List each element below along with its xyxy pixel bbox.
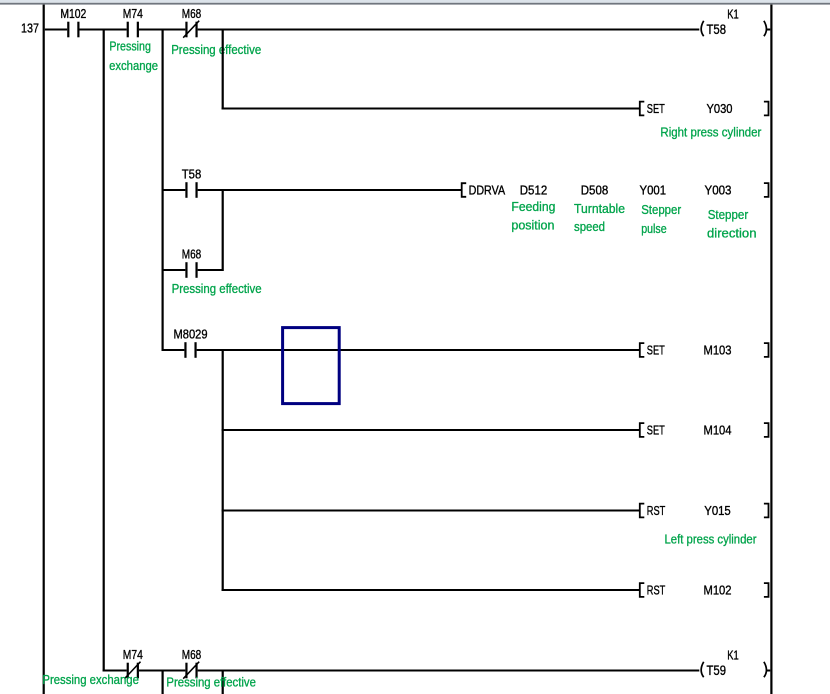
svg-text:137: 137: [21, 22, 39, 36]
right power rail: [770, 5, 772, 694]
wire coil T59 to rail: [767, 670, 771, 672]
svg-text:Pressing effective: Pressing effective: [166, 676, 256, 690]
contact M68 (NO): [182, 247, 202, 278]
timer coil T58 K1: [701, 6, 766, 37]
svg-text:M68: M68: [182, 247, 202, 262]
svg-text:K1: K1: [727, 647, 739, 662]
svg-text:M8029: M8029: [174, 327, 208, 342]
vertical wire branch below bottom M68: [222, 670, 224, 694]
instruction SET M104: [640, 422, 769, 437]
wire M102 to M74: [80, 29, 127, 31]
wire M68 to coil T59: [198, 670, 700, 672]
svg-text:M102: M102: [704, 582, 732, 597]
svg-text:Stepper: Stepper: [641, 203, 681, 217]
svg-text:M74: M74: [123, 647, 143, 662]
wire branch to T58: [162, 189, 186, 191]
wire branch to M68: [162, 269, 186, 271]
svg-text:M104: M104: [704, 422, 732, 437]
svg-text:D512: D512: [520, 182, 548, 197]
svg-text:Y015: Y015: [704, 503, 731, 518]
svg-text:T58: T58: [707, 21, 727, 37]
instruction SET M103: [640, 342, 769, 357]
svg-text:Y001: Y001: [640, 182, 667, 197]
svg-text:speed: speed: [574, 220, 605, 234]
instruction RST Y015: [640, 503, 769, 518]
svg-text:M68: M68: [182, 647, 202, 662]
vertical wire branch after M68 (to SET Y030): [222, 29, 224, 110]
svg-text:Pressing effective: Pressing effective: [171, 43, 261, 57]
svg-text:position: position: [511, 218, 554, 232]
wire M74 to M68: [139, 29, 185, 31]
svg-text:Pressing: Pressing: [109, 39, 151, 53]
svg-text:M68: M68: [182, 6, 202, 21]
wire rail to M102: [45, 29, 67, 31]
svg-text:RST: RST: [647, 503, 666, 518]
contact M8029 (NO): [174, 327, 208, 358]
svg-text:Left press cylinder: Left press cylinder: [665, 533, 757, 547]
vertical wire branch below bottom M74: [162, 670, 164, 694]
wire M74 to M68 bottom: [139, 670, 185, 672]
svg-text:RST: RST: [647, 582, 666, 597]
instruction RST M102: [640, 582, 769, 597]
svg-text:M103: M103: [704, 342, 732, 357]
svg-text:exchange: exchange: [109, 59, 158, 73]
svg-text:Y030: Y030: [707, 101, 733, 116]
wire branch to SET M104: [222, 429, 640, 431]
svg-text:SET: SET: [647, 101, 665, 116]
contact M74 (NO): [123, 6, 143, 37]
contact M68 (NC): [182, 6, 202, 38]
svg-text:M102: M102: [60, 6, 86, 21]
vertical wire branch M8029 row to outputs: [222, 349, 224, 591]
instruction DDRVA D512 D508 Y001 Y003: [462, 182, 769, 197]
contact M102 (NO): [60, 6, 86, 37]
wire branch to RST M102: [222, 589, 640, 591]
svg-text:SET: SET: [647, 342, 665, 357]
wire branch to SET Y030: [222, 108, 640, 110]
svg-text:D508: D508: [581, 182, 609, 197]
left power rail: [43, 5, 45, 694]
svg-text:Right press cylinder: Right press cylinder: [660, 125, 761, 139]
instruction SET Y030: [640, 101, 769, 116]
vertical wire branch after M74 (to T58/M68/M8029 rows): [162, 29, 164, 352]
svg-text:Stepper: Stepper: [708, 208, 749, 222]
svg-text:Pressing effective: Pressing effective: [172, 282, 262, 296]
wire M68 to coil T58: [198, 29, 700, 31]
contact M74 (NC) bottom: [123, 647, 143, 679]
svg-text:T59: T59: [707, 662, 727, 678]
svg-text:Pressing exchange: Pressing exchange: [42, 673, 139, 687]
svg-text:M74: M74: [123, 6, 143, 21]
svg-text:T58: T58: [182, 167, 202, 182]
wire branch to bottom M74: [103, 670, 127, 672]
svg-text:K1: K1: [727, 6, 739, 21]
timer coil T59 K1: [701, 647, 766, 678]
contact T58 (NO): [182, 167, 202, 198]
svg-text:Y003: Y003: [705, 182, 732, 197]
toolbar bottom edge bar: [0, 0, 830, 3]
contact M68 (NC) bottom: [182, 647, 202, 679]
wire M68 to merge: [198, 269, 223, 271]
wire branch to RST Y015: [222, 510, 640, 512]
svg-text:direction: direction: [707, 226, 757, 240]
svg-text:Turntable: Turntable: [574, 202, 625, 216]
wire M8029 to SET M103: [197, 349, 640, 351]
wire branch to M8029: [162, 349, 185, 351]
vertical wire merge T58/M68 rows: [222, 189, 224, 271]
svg-text:pulse: pulse: [641, 222, 667, 236]
svg-text:Feeding: Feeding: [511, 200, 555, 214]
wire T58 to DDRVA: [198, 189, 462, 191]
svg-text:DDRVA: DDRVA: [469, 182, 506, 197]
wire coil T58 to rail: [767, 29, 771, 31]
vertical wire branch after M102 (to bottom rung): [103, 29, 105, 672]
edit cursor selection box: [283, 328, 340, 404]
svg-text:SET: SET: [647, 422, 665, 437]
